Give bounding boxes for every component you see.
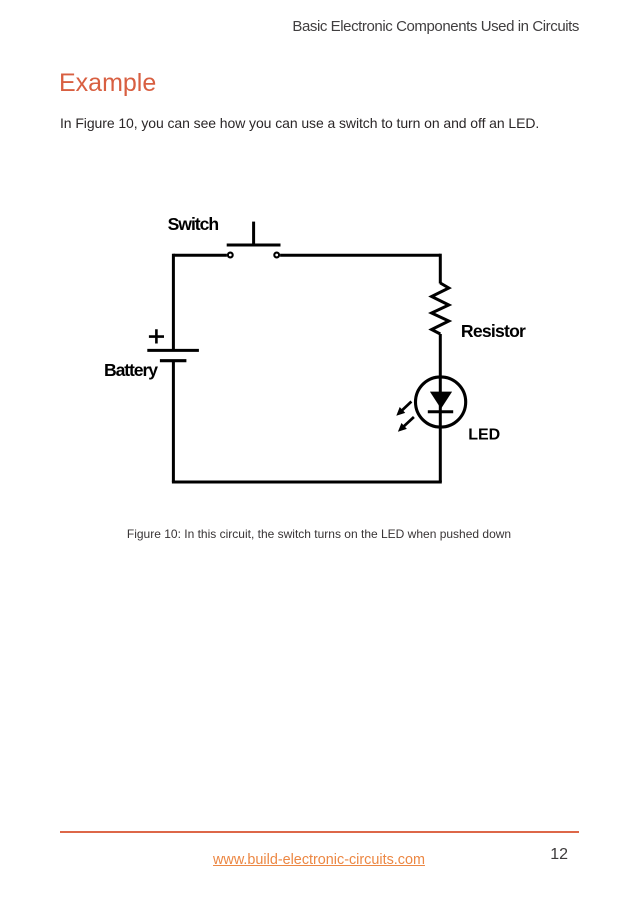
wire: right rail from resistor bottom through LED to bottom-right corner bbox=[439, 334, 442, 482]
LED D1: light emission arrow 2 (lower) bbox=[398, 417, 414, 432]
wire: right rail upper segment down to resistor top bbox=[439, 254, 442, 284]
battery B1: plus sign bbox=[149, 329, 164, 343]
svg-text:Battery: Battery bbox=[104, 360, 158, 380]
switch S1: right contact circle bbox=[274, 253, 279, 258]
wire: left rail lower segment from battery negative plate to bottom-left corner bbox=[172, 361, 175, 482]
battery B1: positive plate (long) bbox=[147, 349, 199, 352]
wire: top rail right segment from switch right contact to top-right corner bbox=[280, 254, 440, 257]
svg-text:Switch: Switch bbox=[168, 214, 220, 234]
switch S1: pushbutton stem bbox=[252, 222, 255, 245]
switch S1: pushbutton actuator bar bbox=[227, 244, 281, 247]
resistor R1: zigzag body bbox=[432, 283, 449, 334]
LED D1: anode triangle bbox=[430, 392, 452, 409]
switch S1: left contact circle bbox=[228, 253, 233, 258]
wire: top rail left segment from top-left corner to switch left contact bbox=[173, 254, 227, 257]
svg-text:LED: LED bbox=[468, 426, 500, 443]
LED D1: light emission arrow 1 (upper) bbox=[396, 402, 411, 416]
wire: left rail from top-left corner down to battery positive plate bbox=[172, 254, 175, 351]
svg-text:Resistor: Resistor bbox=[461, 321, 526, 341]
LED D1: cathode bar bbox=[428, 410, 453, 413]
battery B1: negative plate (short) bbox=[160, 359, 187, 362]
LED D1: body circle bbox=[416, 377, 466, 427]
wire: bottom rail bbox=[172, 481, 442, 484]
